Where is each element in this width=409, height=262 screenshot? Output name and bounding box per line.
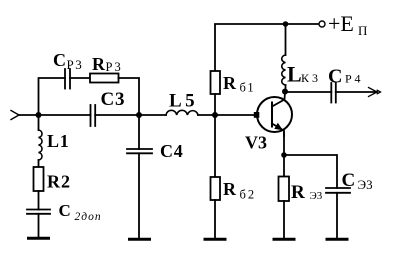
wire: L5 to node C (198, 114, 215, 116)
svg-text:R: R (92, 54, 106, 74)
wire: node B to L5 (139, 114, 166, 116)
label RE3 (291, 182, 323, 203)
label L5 (169, 91, 198, 112)
wire: CP3 to RP3 (70, 77, 90, 79)
capacitor CP3 (65, 69, 70, 89)
node B (136, 112, 142, 118)
label V3 (245, 133, 267, 153)
wire: R2 to C2dop (38, 191, 40, 210)
wire: C2dop to ground (38, 214, 40, 237)
wire: node A up and over to CP3 (39, 78, 66, 115)
label R2 (47, 172, 71, 192)
wire: C4 to ground (138, 153, 140, 238)
wire: emitter branch to CE3 (284, 155, 337, 188)
wire: CE3 to ground (336, 193, 338, 238)
label CP4 (328, 66, 363, 88)
svg-text:C: C (53, 50, 66, 70)
label C3 (101, 89, 126, 110)
svg-text:C: C (328, 66, 342, 88)
wire: node A down to L1 (38, 115, 40, 130)
svg-text:L5: L5 (169, 91, 198, 112)
label Rb1 (223, 73, 255, 95)
ground (C4) (130, 238, 150, 241)
inductor LK3 (282, 55, 286, 85)
wire: Rb1 to node C (214, 94, 216, 115)
node A (input node) (36, 112, 42, 118)
inductor L5 (166, 110, 198, 115)
wire: emitter down (283, 133, 285, 155)
ground (input branch) (29, 237, 49, 240)
wire: supply rail (215, 24, 319, 71)
label +EP (328, 11, 367, 38)
wire: C3 to node B (95, 114, 139, 116)
label RP3 (92, 54, 123, 74)
label C2dop (59, 201, 102, 223)
svg-text:C: C (342, 170, 356, 191)
resistor RP3 (90, 74, 119, 83)
label L1 (47, 131, 70, 151)
node D (rail junction) (283, 21, 289, 27)
capacitor C4 (127, 149, 152, 153)
svg-text:R: R (223, 73, 237, 93)
ground (Rb2) (205, 238, 225, 241)
svg-text:б1: б1 (240, 81, 256, 95)
capacitor C3 (91, 105, 96, 126)
svg-text:П: П (358, 23, 367, 38)
node F (emitter node) (281, 152, 287, 158)
wire: L1 to R2 (38, 160, 40, 167)
svg-text:Р4: Р4 (345, 72, 363, 86)
inductor L1 (39, 130, 43, 160)
svg-text:C3: C3 (101, 89, 126, 110)
svg-text:L: L (287, 62, 302, 87)
resistor RE3 (279, 177, 290, 202)
wire: input to node A (19, 114, 39, 116)
svg-text:R2: R2 (47, 172, 71, 192)
label LK3 (287, 62, 321, 87)
capacitor CE3 (326, 188, 350, 193)
svg-text:L1: L1 (47, 131, 70, 151)
wire: node C to Rb2 (214, 115, 216, 177)
resistor Rb2 (211, 177, 221, 200)
wire: RP3 down to node B (119, 78, 140, 115)
svg-text:C: C (59, 201, 71, 220)
wire: node A to C3 (39, 114, 91, 116)
ground (CE3) (327, 238, 347, 241)
wire: CP4 to output (336, 91, 377, 93)
svg-text:б2: б2 (240, 188, 257, 202)
svg-text:Э3: Э3 (358, 177, 373, 192)
label C4 (160, 141, 184, 161)
resistor R2 (34, 167, 44, 191)
wire: LK3 to collector node (285, 85, 287, 92)
capacitor C2dop (27, 210, 50, 214)
supply terminal (319, 21, 325, 27)
wire: rail to LK3 (285, 24, 287, 55)
svg-text:R: R (291, 182, 305, 203)
svg-text:C4: C4 (160, 141, 184, 161)
wire: Rb2 to ground (214, 200, 216, 238)
transistor V3 (254, 92, 292, 136)
svg-text:2доп: 2доп (75, 211, 102, 223)
wire: node F to RE3 (283, 155, 285, 177)
wire: RE3 to ground (283, 201, 285, 238)
svg-text:Р3: Р3 (67, 57, 84, 72)
wire: collector to CP4 (285, 91, 331, 93)
svg-text:Р3: Р3 (106, 60, 123, 74)
ground (RE3) (274, 238, 294, 241)
svg-text:К3: К3 (301, 71, 321, 85)
resistor Rb1 (211, 71, 221, 94)
wire: node B down to C4 (138, 115, 140, 149)
svg-text:V3: V3 (245, 133, 267, 153)
input terminal chevron (11, 111, 19, 120)
node C (base node) (212, 112, 218, 118)
output arrow (369, 88, 381, 97)
label CP3 (53, 50, 83, 72)
svg-text:+Е: +Е (328, 11, 354, 36)
node E (collector node) (282, 89, 288, 95)
capacitor CP4 (331, 83, 336, 103)
label Rb2 (223, 179, 256, 202)
wire: node C to base (215, 114, 256, 116)
svg-text:R: R (223, 179, 237, 199)
label CE3 (342, 170, 373, 192)
svg-text:Э3: Э3 (310, 190, 323, 202)
